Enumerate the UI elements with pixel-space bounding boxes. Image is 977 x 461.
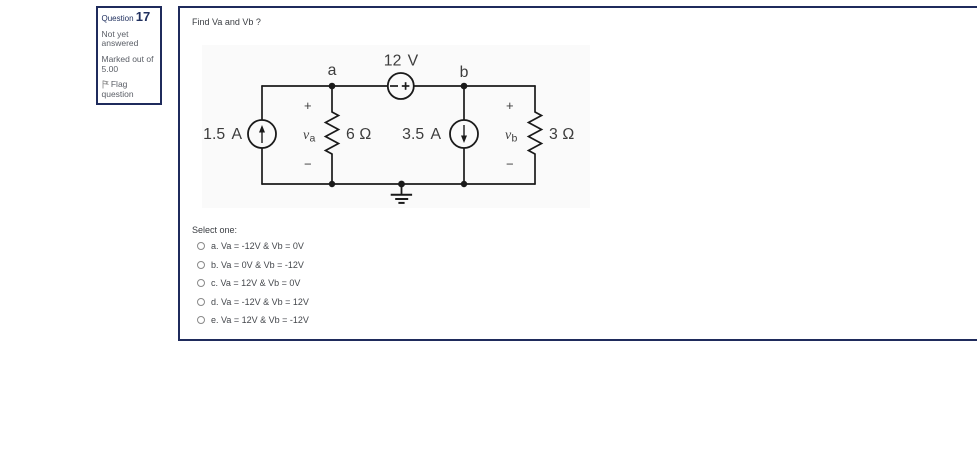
ground — [391, 184, 412, 203]
question info box — [96, 6, 162, 105]
option a — [197, 241, 304, 251]
option e — [197, 315, 309, 325]
wire right upper — [534, 86, 536, 112]
wire left — [261, 86, 263, 184]
wire top — [262, 85, 535, 87]
svg-text:a: a — [310, 133, 316, 145]
option d — [197, 297, 309, 307]
current source I2 3.5 A — [450, 120, 478, 148]
voltage source V1 12 V — [388, 73, 414, 99]
wire right lower — [534, 154, 536, 184]
svg-text:−: − — [304, 157, 312, 172]
bottom junction dot below node b — [461, 181, 467, 187]
svg-text:b: b — [460, 64, 469, 81]
node b junction dot — [461, 83, 468, 90]
svg-text:1.5 A: 1.5 A — [203, 126, 242, 143]
svg-text:b: b — [512, 133, 518, 145]
node a junction dot — [329, 83, 336, 90]
svg-text:−: − — [506, 157, 514, 172]
current source I1 1.5 A — [248, 120, 276, 148]
svg-text:6 Ω: 6 Ω — [346, 126, 371, 143]
svg-text:12 V: 12 V — [384, 53, 419, 70]
wire bottom — [262, 183, 535, 185]
svg-text:+: + — [304, 98, 312, 113]
svg-text:3 Ω: 3 Ω — [549, 126, 574, 143]
svg-text:3.5 A: 3.5 A — [402, 126, 441, 143]
resistor R2 3 ohm — [529, 112, 542, 154]
wire node b branch — [463, 86, 465, 184]
option b — [197, 260, 304, 270]
ground junction dot — [398, 181, 405, 188]
option c — [197, 278, 300, 288]
svg-text:+: + — [506, 98, 514, 113]
wire node a branch lower — [331, 154, 333, 184]
resistor R1 6 ohm — [326, 112, 339, 154]
svg-text:a: a — [328, 62, 337, 79]
main question box — [178, 6, 977, 341]
bottom junction dot below node a — [329, 181, 335, 187]
circuit schematic image — [202, 45, 590, 208]
labels — [203, 53, 574, 172]
wire node a branch upper — [331, 86, 333, 112]
select one — [192, 225, 237, 235]
